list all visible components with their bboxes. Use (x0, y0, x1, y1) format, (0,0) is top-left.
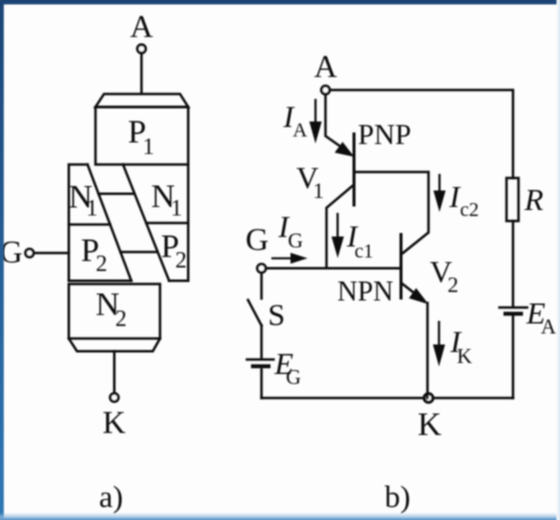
wire band divider lower (121, 251, 157, 254)
frame left bar (0, 0, 4, 520)
resistor R body (507, 178, 519, 221)
switch S blade (248, 300, 262, 326)
wire N1/P2 boundary right (146, 222, 188, 225)
N1 right layer block right edge (169, 164, 188, 280)
svg-text:c1: c1 (355, 241, 374, 263)
svg-text:c2: c2 (460, 199, 479, 221)
svg-text:1: 1 (313, 178, 324, 203)
battery EA long plate (500, 306, 528, 309)
svg-text:G: G (286, 365, 301, 389)
wire gate base rail (266, 267, 400, 270)
wire gate lead (a) (34, 252, 69, 255)
svg-text:K: K (457, 344, 472, 368)
svg-text:G: G (245, 221, 268, 257)
V2 emitter arrowhead (409, 288, 429, 304)
wire diagonal split line 2 (123, 164, 169, 280)
wire top A to R (330, 90, 513, 178)
svg-text:PNP: PNP (358, 119, 411, 151)
wire G to switch (260, 273, 263, 298)
svg-text:a): a) (99, 479, 123, 514)
frame bottom bar (0, 513, 560, 520)
frame top bar (0, 0, 560, 4)
wire V1 base to V2 collector (356, 172, 429, 253)
svg-text:A: A (541, 315, 557, 339)
svg-text:2: 2 (96, 251, 108, 276)
wire N1/P2 boundary left (69, 223, 110, 226)
wire diagonal split line 1 (88, 165, 132, 281)
svg-text:K: K (418, 407, 442, 443)
node K terminal circle (b) (424, 394, 433, 403)
battery EG long plate (247, 358, 274, 361)
wire cathode lead (a) (113, 351, 116, 392)
battery EA short plate (506, 312, 522, 316)
wire band divider upper (99, 193, 135, 196)
svg-text:A: A (314, 48, 337, 84)
wire R to EA (512, 221, 515, 306)
svg-text:NPN: NPN (337, 277, 393, 308)
node A terminal circle (a) (137, 45, 145, 53)
wire A emitter lead V1 (326, 94, 349, 152)
wire anode lead (a) (140, 54, 143, 94)
transistor V2 body bar (400, 235, 403, 299)
node G terminal circle (b) (257, 264, 265, 272)
battery EG short plate (253, 364, 269, 368)
wire EA to bottom rail (512, 316, 515, 399)
cathode contact trapezoid (69, 339, 160, 352)
svg-text:2: 2 (448, 272, 459, 297)
current arrow IA (314, 100, 316, 124)
svg-text:2: 2 (175, 248, 187, 273)
wire left column bottom edge (69, 280, 132, 283)
wire switch to EG (260, 326, 263, 359)
anode contact trapezoid (96, 94, 189, 107)
current arrow Ic1 (337, 214, 339, 238)
node G terminal circle (a) (26, 249, 34, 257)
svg-text:1: 1 (143, 134, 155, 159)
wire EG to bottom rail (260, 370, 263, 399)
V1 emitter arrowhead (335, 142, 355, 157)
transistor V1 body bar (353, 134, 356, 205)
svg-text:A: A (293, 120, 308, 142)
wire V2 emitter lead (402, 284, 416, 295)
P1 layer box (96, 107, 189, 165)
svg-text:S: S (268, 297, 285, 332)
svg-text:A: A (130, 8, 153, 44)
wire emitter to K (426, 303, 429, 398)
frame right bar (557, 0, 560, 520)
node A terminal circle (b) (321, 86, 329, 94)
N1 left layer block (69, 165, 88, 281)
svg-text:R: R (524, 182, 544, 217)
svg-text:G: G (288, 229, 303, 253)
node K terminal circle (a) (110, 393, 118, 401)
current arrow IG (273, 257, 292, 259)
current arrow Ic2 (438, 175, 440, 192)
N2 layer box (69, 284, 160, 339)
svg-text:1: 1 (86, 196, 98, 221)
svg-text:b): b) (385, 479, 411, 514)
wire V1 collector lead (327, 185, 354, 268)
svg-text:2: 2 (115, 306, 127, 331)
svg-text:K: K (102, 404, 125, 440)
wire bottom rail (262, 397, 514, 400)
svg-text:1: 1 (171, 196, 183, 221)
current arrow IK (438, 322, 440, 346)
